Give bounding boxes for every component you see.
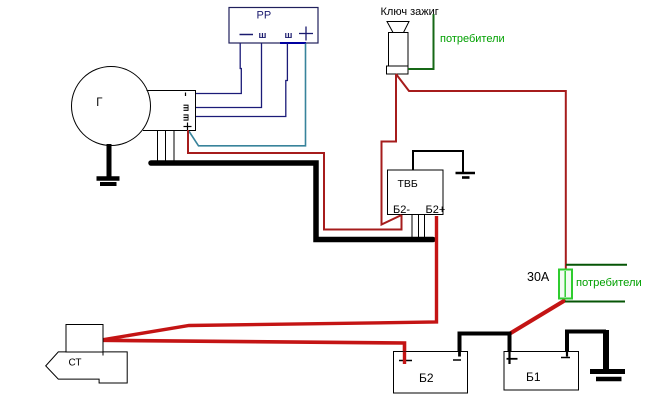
- svg-text:потребители: потребители: [440, 33, 505, 45]
- svg-text:Б2: Б2: [419, 371, 434, 385]
- svg-text:СТ: СТ: [69, 358, 82, 369]
- svg-text:ш: ш: [259, 30, 267, 41]
- svg-text:ш: ш: [181, 114, 191, 122]
- svg-text:Б2-: Б2-: [393, 204, 410, 216]
- svg-text:Б2+: Б2+: [426, 204, 446, 216]
- svg-text:потребители: потребители: [576, 277, 642, 289]
- svg-text:Ключ зажиг: Ключ зажиг: [381, 6, 439, 18]
- svg-text:ТВБ: ТВБ: [398, 178, 418, 190]
- svg-text:РР: РР: [257, 10, 272, 22]
- svg-text:ш: ш: [285, 30, 293, 41]
- svg-text:30А: 30А: [527, 270, 550, 284]
- svg-text:ш: ш: [181, 104, 191, 112]
- svg-text:Г: Г: [96, 97, 103, 109]
- svg-text:Б1: Б1: [526, 370, 541, 384]
